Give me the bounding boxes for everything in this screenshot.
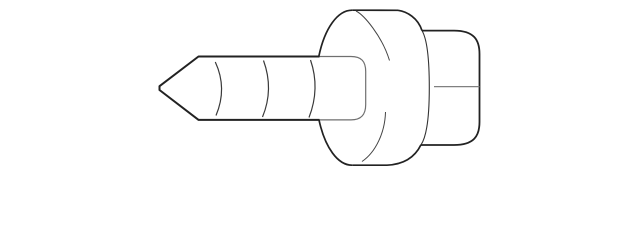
washer left face lower-left arc xyxy=(319,120,352,165)
washer left face upper-left arc xyxy=(319,10,353,56)
thread arc 1 xyxy=(215,62,221,116)
washer inner contour lower arc xyxy=(362,112,386,162)
washer bottom tangent xyxy=(352,164,387,166)
washer rim top-right silhouette xyxy=(398,10,422,30)
washer inner contour upper arc xyxy=(356,11,390,61)
washer top tangent xyxy=(352,9,398,11)
washer rim bottom-right silhouette xyxy=(387,145,421,165)
thread arc 3 xyxy=(309,60,315,118)
washer rim across hex (thin) xyxy=(421,31,429,145)
screw body front outline: tip, chamfers, shaft sides xyxy=(160,57,320,120)
hex head outline xyxy=(421,31,480,145)
screw shaft hidden-side lines and rounded end cap (lighter) xyxy=(320,57,366,120)
hex head middle line xyxy=(434,86,480,88)
thread arc 2 xyxy=(263,61,269,118)
